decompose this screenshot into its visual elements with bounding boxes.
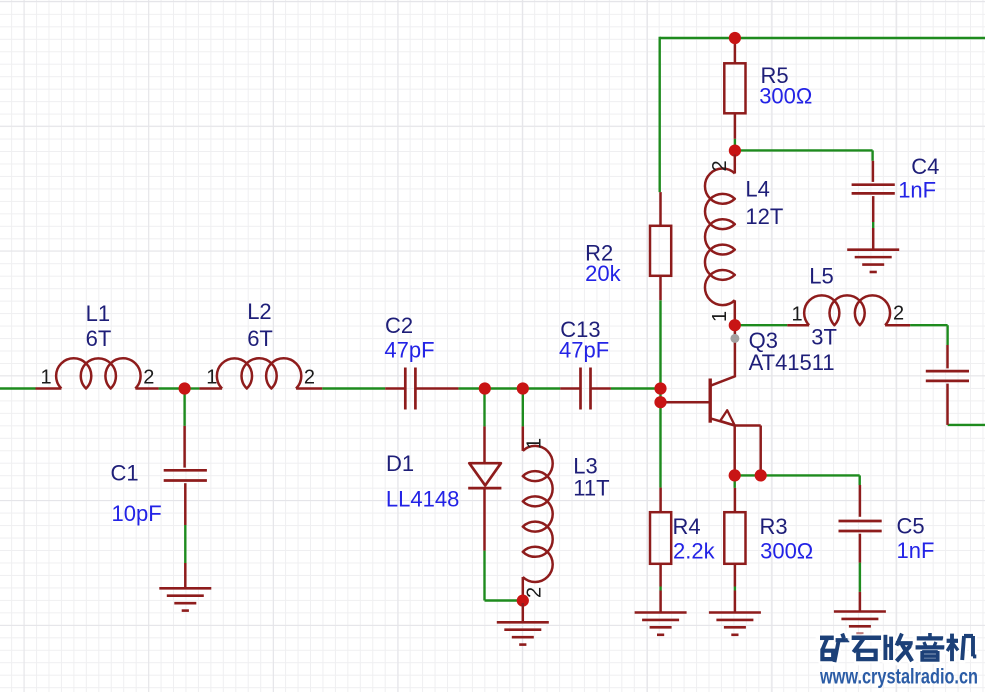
value AT41511 of Q3 xyxy=(749,350,835,375)
svg-text:1nF: 1nF xyxy=(897,538,935,563)
value 2.2k of R4 xyxy=(673,538,716,563)
inductor L1 xyxy=(36,358,159,388)
wire node C down to L3 xyxy=(522,389,524,427)
value 300 ohm of R3 xyxy=(760,538,813,563)
svg-text:1: 1 xyxy=(41,366,52,388)
wire C2 to node B xyxy=(458,387,484,389)
capacitor C5 xyxy=(839,485,882,612)
label C5 xyxy=(897,513,925,538)
label L5 xyxy=(809,264,833,289)
wire node C to C13 xyxy=(523,387,560,389)
wire junction A to L2 xyxy=(185,387,200,389)
capacitor C1 xyxy=(164,426,207,588)
pin 1 of L2 xyxy=(206,366,217,388)
svg-text:6T: 6T xyxy=(247,326,273,351)
label L1 xyxy=(86,301,110,326)
wire node D to base tee xyxy=(659,389,661,403)
wire input net left xyxy=(0,387,36,389)
pin 2 of L4 xyxy=(709,160,731,171)
ground of C1 xyxy=(159,588,211,610)
label R3 xyxy=(760,514,788,539)
diode D1 xyxy=(468,389,501,551)
wire VCC top rail xyxy=(660,37,985,192)
pin 1 of L5 xyxy=(792,303,803,325)
svg-text:3T: 3T xyxy=(811,325,837,350)
svg-text:1: 1 xyxy=(709,311,731,322)
inductor L3 xyxy=(523,426,553,597)
resistor R4 xyxy=(650,488,671,613)
inductor L2 xyxy=(199,358,322,388)
value 300 ohm of R5 xyxy=(759,83,812,108)
wire D1 to L3 pin 2 xyxy=(485,551,523,601)
svg-text:1: 1 xyxy=(523,438,545,449)
value 47pF of C2 xyxy=(384,337,434,362)
junction emitter right xyxy=(755,469,767,481)
label R2 xyxy=(585,241,613,266)
value 1nF of C5 xyxy=(897,538,935,563)
svg-text:1nF: 1nF xyxy=(898,178,936,203)
svg-text:L4: L4 xyxy=(745,176,769,201)
junction node D upper xyxy=(654,382,666,394)
resistor R2 xyxy=(650,192,671,300)
svg-text:12T: 12T xyxy=(745,204,783,229)
svg-text:AT41511: AT41511 xyxy=(749,350,835,375)
pin 2 of L5 xyxy=(893,303,904,325)
svg-text:LL4148: LL4148 xyxy=(386,487,459,512)
svg-text:C5: C5 xyxy=(897,513,925,538)
svg-text:300Ω: 300Ω xyxy=(759,83,812,108)
capacitor C6 xyxy=(926,345,969,425)
value 20k of R2 xyxy=(585,261,621,286)
junction A L1-L2-C1 xyxy=(179,382,191,394)
ground of R3 xyxy=(709,613,761,635)
pin 2 of L3 xyxy=(523,587,545,598)
wire junction A down to C1 xyxy=(183,389,185,426)
svg-text:2.2k: 2.2k xyxy=(673,538,716,563)
value LL4148 of D1 xyxy=(386,487,459,512)
svg-text:2: 2 xyxy=(709,160,731,171)
label R4 xyxy=(673,514,701,539)
junction node B C2-D1 xyxy=(479,382,491,394)
junction node C C13-L3 xyxy=(517,382,529,394)
svg-text:L5: L5 xyxy=(809,264,833,289)
wire L1 to junction A xyxy=(159,387,185,389)
pin 2 of L1 xyxy=(143,366,154,388)
label L2 xyxy=(247,299,271,324)
wire C1 to ground xyxy=(184,525,186,563)
label D1 xyxy=(386,451,414,476)
wire emitter node to R3 xyxy=(734,478,736,488)
svg-text:300Ω: 300Ω xyxy=(760,538,813,563)
junction L3 pin 2 xyxy=(517,595,529,607)
svg-text:47pF: 47pF xyxy=(384,337,434,362)
svg-text:2: 2 xyxy=(893,303,904,325)
junction node E xyxy=(729,145,741,157)
svg-text:2: 2 xyxy=(143,366,154,388)
svg-text:11T: 11T xyxy=(573,476,609,501)
svg-text:C1: C1 xyxy=(111,461,139,486)
label C4 xyxy=(911,154,939,179)
svg-text:20k: 20k xyxy=(585,261,621,286)
wire C13 to node D xyxy=(611,387,661,389)
value 6T of L1 xyxy=(86,326,112,351)
svg-text:10pF: 10pF xyxy=(112,501,162,526)
value 6T of L2 xyxy=(247,326,273,351)
wire C4 ground stub xyxy=(872,222,874,228)
svg-text:C4: C4 xyxy=(911,154,939,179)
value 3T of L5 xyxy=(811,325,837,350)
pin 1 of L4 xyxy=(709,311,731,322)
svg-text:www.crystalradio.cn: www.crystalradio.cn xyxy=(819,666,978,689)
svg-text:R4: R4 xyxy=(673,514,701,539)
watermark url text xyxy=(819,666,978,689)
pin 1 of L3 xyxy=(523,438,545,449)
watermark logo crystalradio xyxy=(820,633,976,662)
label L3 xyxy=(573,454,597,479)
svg-text:1: 1 xyxy=(792,303,803,325)
svg-text:47pF: 47pF xyxy=(559,338,609,363)
value 12T of L4 xyxy=(745,204,783,229)
resistor R3 xyxy=(724,488,745,613)
wire node D down to R4 xyxy=(659,402,661,487)
wire node B to node C xyxy=(485,387,523,389)
wire emitter node to C5 xyxy=(761,475,860,485)
capacitor C2 xyxy=(385,368,458,410)
wire node E to C4 xyxy=(735,150,873,160)
svg-text:C2: C2 xyxy=(385,313,413,338)
wire C5 ground stub xyxy=(859,563,861,592)
capacitor C13 xyxy=(560,368,611,410)
pin 2 of L2 xyxy=(304,366,315,388)
wire R5 to node E xyxy=(734,139,736,147)
inductor L4 xyxy=(705,155,735,322)
svg-text:D1: D1 xyxy=(386,451,414,476)
value 11T of L3 xyxy=(573,476,609,501)
inductor L5 xyxy=(787,295,910,325)
value 1nF of C4 xyxy=(898,178,936,203)
wire L2 to C2 xyxy=(322,387,385,389)
svg-text:2: 2 xyxy=(304,366,315,388)
wire R2 to node D xyxy=(659,300,661,388)
ground of R4 xyxy=(635,613,687,635)
value 10pF of C1 xyxy=(112,501,162,526)
ground of C5 xyxy=(834,612,886,634)
wire C6 to output xyxy=(948,424,985,426)
svg-text:6T: 6T xyxy=(86,326,112,351)
gray pin dot of Q3 xyxy=(730,334,739,343)
ground of C4 xyxy=(847,250,899,272)
svg-text:L1: L1 xyxy=(86,301,110,326)
label C13 xyxy=(560,317,600,342)
label Q3 xyxy=(749,328,778,353)
wire L5 to C6 xyxy=(910,325,948,345)
label R5 xyxy=(761,63,789,88)
junction emitter left xyxy=(729,469,741,481)
label C2 xyxy=(385,313,413,338)
value 47pF of C13 xyxy=(559,338,609,363)
capacitor C4 xyxy=(852,161,895,250)
label C1 xyxy=(111,461,139,486)
junction collector node xyxy=(729,319,741,331)
pin 1 of L1 xyxy=(41,366,52,388)
svg-text:R3: R3 xyxy=(760,514,788,539)
svg-text:1: 1 xyxy=(206,366,217,388)
junction R5 top xyxy=(729,32,741,44)
wire R4 ground stub xyxy=(659,587,661,591)
svg-text:L2: L2 xyxy=(247,299,271,324)
resistor R5 xyxy=(724,38,745,139)
wire R3 ground stub xyxy=(734,587,736,591)
wire emitter junction pair xyxy=(735,474,761,476)
junction node D lower xyxy=(654,396,666,408)
ground of L3 xyxy=(497,603,549,645)
wire collector to L5 xyxy=(735,324,788,326)
label L4 xyxy=(745,176,769,201)
transistor Q3 xyxy=(661,325,761,475)
